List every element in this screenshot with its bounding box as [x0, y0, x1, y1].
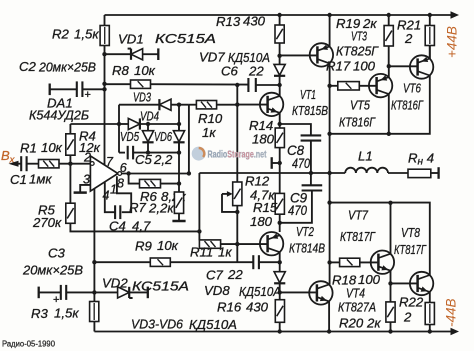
wire: VT7 emitter down [390, 271, 392, 302]
svg-text:1к: 1к [202, 125, 216, 140]
wire: VT2 collector [279, 252, 281, 262]
label R2 value [52, 27, 99, 42]
svg-text:КТ816Г: КТ816Г [391, 98, 424, 113]
label R13 value [216, 14, 266, 30]
wire: C6/R10/R12 vertical [235, 83, 239, 263]
node: R5 line / corner junction [197, 229, 201, 233]
wire: VT1 base [235, 102, 267, 106]
label VT5 [339, 98, 376, 130]
svg-text:КТ814В: КТ814В [289, 241, 325, 256]
wire: VT3 emitter to rail [327, 13, 331, 47]
capacitor C1 [21, 156, 26, 171]
resistor R14 [275, 124, 284, 163]
label R12 R15 values [245, 174, 278, 230]
wire: VT4 emitter to rail [328, 301, 330, 331]
resistor R21 [425, 15, 434, 59]
wire: pin 4 vertical [93, 189, 95, 302]
wire: VT2 emitter [279, 223, 281, 232]
svg-text:VT7: VT7 [348, 208, 369, 223]
node: box bottom right junction [177, 150, 181, 154]
svg-text:180: 180 [250, 214, 273, 229]
node: VT4 emitter on rail [327, 329, 331, 333]
svg-text:22: 22 [227, 267, 243, 282]
label VD1 [118, 31, 216, 47]
capacitor C4 and pin1/pin8 wiring [105, 176, 131, 219]
transistor VT2 (КТ814В) [260, 232, 283, 255]
watermark logo [192, 147, 206, 161]
svg-text:КС515А: КС515А [132, 279, 189, 294]
label R9 value [135, 238, 179, 254]
svg-text:R17: R17 [326, 59, 351, 74]
resistor R13 [275, 15, 284, 56]
svg-text:10к: 10к [134, 63, 156, 78]
wire: VT6 emitter to R21 [429, 46, 431, 59]
svg-text:КС515А: КС515А [155, 31, 216, 46]
svg-text:2,2к: 2,2к [148, 201, 174, 216]
wire: output line corner down [198, 173, 200, 240]
node: R17 junction [327, 84, 331, 88]
svg-text:C2: C2 [19, 59, 37, 74]
node: R1/R4/R5/pin2 junction [68, 162, 72, 166]
capacitor C5 on box bottom line [119, 146, 179, 160]
svg-text:КД510А: КД510А [239, 284, 281, 299]
capacitor C3 [39, 285, 95, 306]
node: R6/R7 junction [177, 181, 181, 185]
svg-text:К544УД2Б: К544УД2Б [29, 108, 89, 123]
svg-text:4: 4 [103, 189, 110, 203]
svg-text:10к: 10к [157, 238, 179, 253]
resistor R4 [66, 124, 75, 164]
node: R6 takeoff [126, 171, 130, 175]
wire: output line to load [199, 172, 408, 174]
label R21 value [397, 18, 421, 47]
node: C7/VT2 collector junction [278, 260, 282, 264]
wire: diode box top line [119, 104, 189, 106]
wire: VT6 base [389, 65, 417, 67]
svg-text:1,5к: 1,5к [54, 306, 79, 321]
resistor R16 [275, 292, 284, 331]
label R8 value [112, 63, 156, 78]
svg-text:2,2: 2,2 [153, 152, 173, 167]
svg-text:C1: C1 [10, 172, 27, 187]
node: VD6a top junction [146, 122, 150, 126]
node: VT7 emitter / VT8 base junction [388, 281, 392, 285]
svg-text:20мк×25В: 20мк×25В [38, 60, 96, 75]
label VD3-VD6 designation row [131, 317, 237, 333]
svg-text:VT1: VT1 [300, 87, 316, 102]
label VD4 [140, 109, 159, 124]
node: R2/VD1 junction [102, 52, 106, 56]
label Вх (input) [1, 148, 16, 166]
label DA1 [29, 96, 89, 123]
caption Радио-05-1990 [2, 339, 55, 349]
svg-text:R12: R12 [245, 174, 270, 189]
svg-text:8: 8 [117, 176, 124, 190]
node: VD8/R16/VT4 base junction [278, 290, 282, 294]
svg-text:C3: C3 [48, 246, 66, 261]
label R20 value [339, 316, 381, 331]
resistor R5 [66, 164, 75, 224]
svg-text:180: 180 [252, 132, 275, 147]
label Rн value [408, 151, 434, 168]
transistor VT4 (КТ827А) [309, 281, 332, 304]
svg-text:22: 22 [248, 64, 264, 79]
wire: lower link line [330, 203, 430, 276]
label R22 value [399, 295, 424, 325]
resistor R17 [330, 82, 376, 90]
label R4 value [79, 129, 101, 155]
wire: VT5 emitter up [388, 66, 390, 77]
svg-text:VT2: VT2 [296, 224, 314, 239]
svg-text:КТ815В: КТ815В [292, 103, 328, 118]
svg-text:VD7: VD7 [199, 50, 225, 65]
capacitor C2 [50, 81, 105, 101]
pin 4 number [103, 189, 110, 203]
label VD5 [120, 129, 139, 144]
node: R11/VT2 base junction [235, 242, 239, 246]
svg-text:R1: R1 [20, 141, 37, 156]
label +44В (top rail) [445, 26, 460, 58]
label R6 value [140, 189, 186, 204]
transistor VT8 (КТ817Г) [410, 272, 433, 295]
label VT1 [292, 87, 328, 118]
wire: feedback line from R4 [70, 123, 119, 125]
terminal tick at R14 bottom [272, 157, 280, 169]
capacitor C7 [253, 255, 279, 269]
svg-text:3: 3 [83, 173, 90, 187]
svg-text:VD8: VD8 [204, 283, 230, 298]
node: C6/VD7/VT1 collector junction [277, 83, 281, 87]
wire: +44V top supply rail [105, 11, 460, 19]
node: R9 line junction [92, 260, 96, 264]
label VD6 [154, 129, 172, 144]
svg-text:C5: C5 [135, 152, 153, 167]
svg-text:+: + [53, 294, 59, 306]
svg-text:7: 7 [106, 155, 114, 169]
svg-text:КД510А: КД510А [189, 317, 237, 332]
svg-text:VT8: VT8 [401, 225, 421, 240]
svg-text:2: 2 [404, 31, 413, 46]
node: diode box left top junction [117, 122, 121, 126]
wire: R5 bottom to R11 [70, 223, 199, 231]
svg-text:КТ827А: КТ827А [338, 300, 376, 315]
wire: VT7 collector [390, 203, 392, 254]
label C2 value [19, 59, 96, 75]
inductor L1 [345, 168, 388, 173]
label VD3 [133, 90, 151, 105]
svg-text:1: 1 [110, 183, 117, 197]
svg-text:VT4: VT4 [346, 286, 365, 301]
capacitor C8 [280, 124, 322, 173]
svg-text:R8: R8 [112, 63, 130, 78]
diode VD6 (first) [142, 124, 153, 153]
ground at R7 [172, 220, 185, 223]
wire: VT4 base [280, 291, 316, 293]
diode VD2 (zener КС515А) [94, 287, 147, 299]
resistor R8 [105, 80, 249, 88]
pin 6 number [120, 161, 127, 175]
pin 3 wire and number [80, 173, 90, 192]
svg-text:С7: С7 [206, 268, 224, 283]
wire: VT1 emitter [279, 113, 281, 124]
watermark text [208, 150, 267, 161]
node: bus on output line [327, 171, 331, 175]
svg-text:Радио-05-1990: Радио-05-1990 [2, 339, 55, 349]
wire: diode box right vertical [178, 105, 180, 153]
svg-text:R18: R18 [332, 273, 357, 288]
label VT7 [340, 208, 376, 245]
label R1 value [20, 140, 63, 156]
svg-text:12к: 12к [79, 140, 101, 155]
label R5 value [32, 203, 62, 231]
label VT6 [391, 81, 424, 113]
svg-text:-44В: -44В [444, 298, 459, 327]
wire: VT3 base [280, 54, 317, 56]
op-amp DA1 (К544УД2Б) [90, 156, 121, 191]
wire: VT2 base [237, 243, 266, 245]
node: R19 top on rail [387, 13, 391, 17]
node: R13 top on rail [277, 13, 281, 17]
svg-text:1к: 1к [218, 245, 232, 260]
wire: VT5 collector down [388, 94, 390, 134]
transistor VT5 (КТ816Г) [369, 74, 392, 97]
potentiometer R12 [222, 182, 242, 212]
svg-text:R19: R19 [336, 16, 361, 31]
resistor R9 [94, 258, 253, 266]
svg-text:RadioStorage.net: RadioStorage.net [208, 150, 267, 161]
diode VD8 [274, 262, 285, 292]
resistor R7 [174, 153, 183, 221]
wire: VT3 collector / output bus vertical [329, 63, 331, 284]
resistor R2 [100, 15, 109, 46]
ground at DA1 pin 3 [74, 191, 87, 194]
node: R16 on bottom rail [278, 329, 282, 333]
wire: -44V bottom supply rail [94, 328, 459, 336]
pin 7 number [106, 155, 114, 169]
node: C3/VD2 junction [92, 290, 96, 294]
label VT2 [289, 224, 325, 256]
label C8 value [287, 143, 310, 171]
svg-text:VD3-VD6: VD3-VD6 [131, 317, 184, 332]
pin 8 number [117, 176, 124, 190]
node: R18 junction on bus [327, 260, 331, 264]
node: VD6b top junction [177, 122, 181, 126]
node: output link on bus [327, 132, 331, 136]
resistor R6 feedback [129, 174, 179, 188]
svg-text:R10: R10 [198, 111, 223, 126]
resistor R10 [189, 101, 237, 109]
resistor R20 [386, 302, 395, 332]
label C5 value [135, 152, 173, 167]
node: C8/C9 on output line [309, 171, 313, 175]
svg-text:+44В: +44В [445, 26, 460, 58]
svg-text:R11: R11 [190, 245, 213, 260]
resistor R1 [27, 160, 91, 168]
node: VT5 collector on output link [387, 132, 391, 136]
svg-text:470: 470 [288, 203, 307, 218]
label -44В (bottom rail) [444, 298, 459, 327]
svg-text:1мк: 1мк [29, 172, 52, 187]
node: R8 junction [102, 82, 106, 86]
label C6 value [221, 64, 264, 79]
node: C2 junction [102, 87, 106, 91]
capacitor C6 [248, 78, 279, 92]
wire: VT8 emitter down [429, 292, 431, 303]
node: R14/R15 junction [278, 161, 282, 165]
svg-text:VT6: VT6 [403, 81, 421, 96]
node: R15/C9/VT2 emitter junction [278, 221, 282, 225]
svg-text:КТ816Г: КТ816Г [339, 115, 376, 130]
svg-text:2к: 2к [362, 16, 377, 31]
pin 2 number [83, 151, 91, 165]
svg-text:L1: L1 [358, 149, 373, 164]
svg-text:VD4: VD4 [140, 109, 159, 124]
label C1 value [10, 172, 52, 188]
label C3 value [22, 246, 83, 278]
svg-text:470: 470 [292, 156, 310, 171]
label R18 value [332, 272, 381, 288]
svg-text:2: 2 [403, 310, 412, 325]
svg-text:10к: 10к [41, 140, 63, 155]
wire: VT6 collector down to output link [330, 76, 430, 134]
svg-text:R9: R9 [135, 239, 153, 254]
wire: diode box left vertical [118, 105, 120, 153]
wire: VT1 collector [279, 85, 281, 96]
label L1 [358, 149, 373, 164]
node: diode box right top junction [177, 103, 181, 107]
pin 1 number [110, 183, 117, 197]
wire: VT8 base [391, 282, 417, 284]
label R7 value [129, 200, 174, 216]
label C7 VD8 R16 values [204, 267, 281, 315]
svg-text:R20: R20 [339, 316, 364, 331]
resistor R11 [199, 240, 237, 248]
transistor VT3 (КТ825Г) [310, 43, 333, 66]
transistor VT1 (КТ815В) [260, 93, 283, 116]
svg-text:С6: С6 [221, 64, 239, 79]
wire: R10 branch vertical [188, 105, 190, 174]
node: VT7 collector on lower link [388, 201, 392, 205]
svg-text:VT5: VT5 [350, 98, 371, 113]
transistor VT6 (КТ816Г) [410, 55, 433, 78]
node: op-amp output / R10 junction [187, 171, 191, 175]
svg-text:VD3: VD3 [133, 90, 151, 105]
svg-text:100: 100 [358, 272, 381, 287]
node: bus on lower link [327, 200, 331, 204]
svg-text:270к: 270к [32, 215, 62, 230]
label C9 value [288, 191, 308, 219]
label R11 value [190, 245, 232, 260]
diode VD6 (second) [173, 124, 184, 153]
label R14 value [249, 118, 275, 147]
node: VD6a bottom junction [146, 150, 150, 154]
input terminal arrow [9, 161, 22, 167]
svg-text:КТ817Г: КТ817Г [340, 229, 376, 244]
resistor R19 [384, 15, 393, 66]
capacitor C9 [280, 173, 323, 223]
label C4 value [109, 219, 151, 234]
resistor R22 [425, 303, 434, 332]
svg-text:КТ825Г: КТ825Г [336, 44, 379, 59]
wire: op-amp output line [122, 173, 189, 175]
node: R12 wiper junction [235, 210, 239, 214]
svg-text:КТ817Г: КТ817Г [394, 242, 427, 257]
label R19 value [336, 16, 377, 31]
svg-text:R2: R2 [52, 27, 70, 42]
svg-text:+: + [85, 89, 91, 101]
transistor VT7 (КТ817Г) [371, 251, 394, 274]
node: VD7/VT3 base junction [277, 54, 281, 58]
label VT4 [338, 286, 376, 315]
diode VD5 [119, 118, 179, 129]
svg-text:R16: R16 [217, 300, 242, 315]
svg-text:R22: R22 [399, 295, 424, 310]
label VD7 designation row [199, 50, 270, 66]
label VT3 [336, 29, 379, 59]
svg-text:VD2: VD2 [102, 276, 128, 291]
diode VD1 (zener КС515А) [105, 48, 159, 60]
node: R21 top on rail [428, 13, 432, 17]
node: R22 on rail [428, 329, 432, 333]
svg-text:R15: R15 [253, 200, 278, 215]
resistor R3 [90, 302, 99, 332]
svg-text:20мк×25В: 20мк×25В [22, 263, 83, 278]
wire: DA1 supply vertical (R2 to pin 7) [104, 46, 106, 166]
node: VT1 emitter junction [278, 122, 282, 126]
svg-text:VD6: VD6 [154, 129, 172, 144]
svg-text:R13: R13 [216, 14, 241, 29]
svg-text:430: 430 [243, 14, 266, 29]
node: R19/VT5/VT6 base junction [387, 64, 391, 68]
svg-text:100: 100 [353, 59, 376, 74]
svg-text:R3: R3 [31, 306, 49, 321]
diode VD7 [274, 56, 285, 85]
label VD2 [102, 276, 189, 294]
label VT8 [394, 225, 427, 257]
svg-text:430: 430 [246, 300, 269, 315]
node: R20 on rail [388, 329, 392, 333]
resistor R15 [275, 163, 284, 223]
svg-text:2к: 2к [366, 316, 381, 331]
label R10 value [198, 111, 223, 140]
label R3 value [31, 306, 79, 322]
svg-text:VD1: VD1 [118, 32, 144, 47]
resistor R18 [330, 258, 378, 266]
diode VD3 [159, 99, 171, 110]
resistor Rн (load) [408, 167, 439, 179]
label R17 value [326, 59, 376, 74]
svg-text:1,5к: 1,5к [74, 27, 99, 42]
svg-text:VD5: VD5 [120, 129, 139, 144]
